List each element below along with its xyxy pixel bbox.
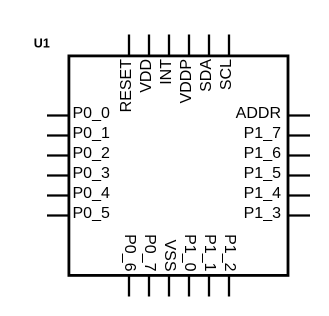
svg-text:INT: INT bbox=[158, 59, 175, 85]
pin P1_7 (right 2) bbox=[288, 134, 310, 136]
svg-text:P0_3: P0_3 bbox=[73, 165, 110, 182]
svg-text:P0_2: P0_2 bbox=[73, 145, 110, 162]
pin P1_1 (bottom 5) bbox=[208, 276, 210, 297]
svg-text:U1: U1 bbox=[34, 36, 50, 50]
svg-text:P1_7: P1_7 bbox=[244, 125, 281, 142]
pin P0_6 (bottom 1) bbox=[128, 276, 130, 297]
svg-text:P1_4: P1_4 bbox=[244, 185, 281, 202]
pin P0_4 (left 5) bbox=[47, 194, 69, 196]
svg-text:P1_3: P1_3 bbox=[244, 205, 281, 222]
pin INT (top 3) bbox=[168, 35, 170, 56]
svg-text:VSS: VSS bbox=[161, 239, 178, 271]
pin P1_6 (right 3) bbox=[288, 154, 310, 156]
pin ADDR (right 1) bbox=[288, 114, 310, 116]
pin SCL (top 6) bbox=[228, 35, 230, 56]
pin VDDP (top 4) bbox=[188, 35, 190, 56]
svg-text:VDD: VDD bbox=[138, 59, 155, 93]
svg-text:P1_6: P1_6 bbox=[244, 145, 281, 162]
svg-text:VDDP: VDDP bbox=[178, 59, 195, 103]
pin P0_5 (left 6) bbox=[47, 214, 69, 216]
svg-text:P1_0: P1_0 bbox=[181, 234, 198, 271]
pin VSS (bottom 3) bbox=[168, 276, 170, 297]
svg-text:P0_1: P0_1 bbox=[73, 125, 110, 142]
pin P0_0 (left 1) bbox=[47, 114, 69, 116]
pin P0_7 (bottom 2) bbox=[148, 276, 150, 297]
pin P1_3 (right 6) bbox=[288, 214, 310, 216]
pin P1_2 (bottom 6) bbox=[228, 276, 230, 297]
svg-text:P0_5: P0_5 bbox=[73, 205, 110, 222]
pin VDD (top 2) bbox=[148, 35, 150, 56]
pin P0_1 (left 2) bbox=[47, 134, 69, 136]
pin P0_3 (left 4) bbox=[47, 174, 69, 176]
svg-text:P0_0: P0_0 bbox=[73, 105, 110, 122]
svg-text:P0_7: P0_7 bbox=[141, 234, 158, 271]
svg-text:RESET: RESET bbox=[118, 59, 135, 113]
svg-text:P0_6: P0_6 bbox=[121, 234, 138, 271]
svg-text:P1_5: P1_5 bbox=[244, 165, 281, 182]
pin P0_2 (left 3) bbox=[47, 154, 69, 156]
svg-text:ADDR: ADDR bbox=[236, 105, 281, 122]
pin P1_0 (bottom 4) bbox=[188, 276, 190, 297]
pin RESET (top 1) bbox=[128, 35, 130, 56]
IC body U1 outline bbox=[69, 56, 288, 276]
svg-text:SDA: SDA bbox=[198, 59, 215, 92]
svg-text:P1_2: P1_2 bbox=[221, 234, 238, 271]
svg-text:P0_4: P0_4 bbox=[73, 185, 110, 202]
svg-text:SCL: SCL bbox=[218, 59, 235, 90]
svg-text:P1_1: P1_1 bbox=[201, 234, 218, 271]
pin P1_4 (right 5) bbox=[288, 194, 310, 196]
pin P1_5 (right 4) bbox=[288, 174, 310, 176]
pin SDA (top 5) bbox=[208, 35, 210, 56]
